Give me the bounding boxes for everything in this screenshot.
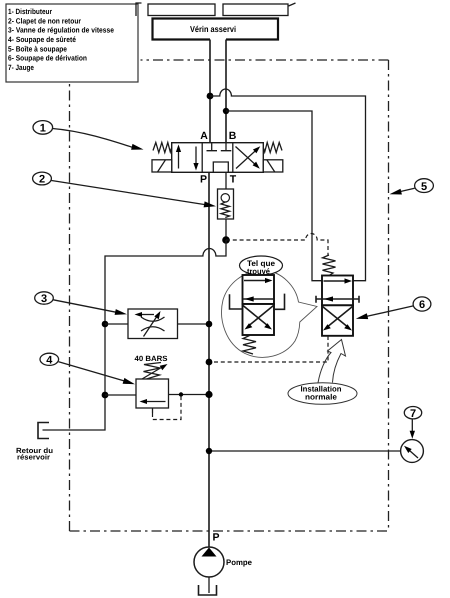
svg-text:4- Soupape de sûreté: 4- Soupape de sûreté [8, 35, 76, 44]
flow regulator valve C3 (vanne de régulation de vitesse) [128, 309, 178, 339]
node left column upper junction [102, 321, 109, 328]
as-found top flow arrow [244, 280, 268, 282]
valve right pilot box [263, 160, 283, 172]
svg-text:3- Vanne de régulation de vite: 3- Vanne de régulation de vitesse [8, 26, 114, 35]
leader 1 [53, 129, 134, 148]
valve cell2 blocked port A [207, 143, 218, 151]
svg-text:1- Distributeur: 1- Distributeur [8, 7, 52, 16]
bypass middle blocked line [316, 296, 359, 303]
svg-text:P: P [200, 174, 207, 186]
leader 5 [401, 188, 415, 191]
bypass top flow arrow [324, 280, 348, 282]
valve left pilot box [152, 160, 172, 172]
svg-text:4: 4 [46, 355, 53, 367]
valve cell3 cross arrows [236, 147, 257, 169]
callout circle 2 [33, 172, 52, 185]
svg-text:normale: normale [305, 392, 338, 401]
bypass valve U6 (soupape de dérivation) [316, 276, 359, 336]
relief valve drain pilot (dashed loop) [152, 408, 154, 413]
svg-text:B: B [229, 130, 237, 142]
servo cylinder (Vérin asservi) [136, 3, 296, 40]
as-found spring below [243, 336, 256, 355]
valve cell2 bottom chamber [213, 162, 228, 172]
callout circle 7 [404, 407, 421, 419]
valve cell2 blocked port B [221, 143, 232, 151]
leader 4 [59, 362, 125, 381]
valve cell1 down arrow [195, 147, 197, 167]
as-found cross arrows [243, 306, 274, 326]
relief valve C4 (soupape de sûreté) [136, 379, 169, 408]
gauge C7 (jauge) [401, 440, 424, 463]
relief valve C4 adjust arrow [140, 367, 164, 381]
callout circle 1 [33, 121, 53, 135]
node relief tap [179, 392, 183, 396]
wire flow regulator to main line [178, 323, 210, 325]
svg-text:Pompe: Pompe [226, 558, 253, 567]
node A-line junction [207, 93, 214, 100]
callout circle 6 [413, 297, 431, 311]
node main line drain junction [206, 359, 213, 366]
svg-text:2- Clapet de non retour: 2- Clapet de non retour [8, 16, 81, 25]
node B-line junction [223, 108, 229, 114]
node main line gauge junction [206, 448, 212, 454]
svg-text:réservoir: réservoir [17, 453, 50, 462]
wire branch to left column (hops over main line) [43, 240, 227, 430]
leader 2 [52, 181, 206, 205]
tank return symbol [38, 423, 49, 439]
as-found middle line [243, 298, 274, 300]
wire relief valve to main line [169, 394, 210, 396]
wire B-tap to bypass valve left [226, 111, 322, 281]
node main line regulator junction [206, 321, 213, 328]
legend box [6, 4, 138, 82]
wire A-tap to bypass valve right (hops over B wire) [210, 89, 366, 281]
arrow installation normale to bypass valve [318, 340, 346, 384]
node left column relief junction [102, 392, 109, 399]
wire left column to relief valve [105, 394, 136, 396]
svg-text:2: 2 [39, 174, 45, 186]
svg-text:1: 1 [40, 123, 46, 135]
wire cylinder right port to valve B [225, 40, 227, 143]
wire cylinder left port to valve A [209, 40, 211, 143]
svg-text:6: 6 [419, 299, 425, 311]
callout circle 5 [415, 179, 434, 193]
node check/branch junction [222, 236, 230, 244]
svg-text:3: 3 [41, 293, 47, 305]
wire valve T to check valve [225, 172, 227, 189]
pump (Pompe) [194, 547, 253, 577]
leader 6 [367, 306, 414, 317]
balloon Installation normale [288, 383, 357, 405]
valve box frame (dash-dot enclosure, item 5) [141, 59, 389, 61]
leader 3 [53, 300, 116, 313]
valve left spring [153, 143, 172, 153]
bypass cross arrows [323, 307, 353, 327]
main pressure wire P line pump to valve [208, 172, 210, 547]
svg-text:5: 5 [421, 181, 427, 193]
svg-text:5- Boîte à soupape: 5- Boîte à soupape [8, 44, 67, 53]
gauge circuit wire [209, 450, 401, 452]
svg-text:A: A [200, 130, 208, 142]
balloon Tel que trouvé (cloud) [222, 271, 317, 358]
as-found valve (inside balloon, spring below) [230, 275, 285, 354]
wire check valve to junction [225, 219, 227, 240]
node main line relief junction [205, 391, 212, 398]
callout circle 4 [40, 353, 59, 365]
as-found right port bracket [274, 294, 285, 310]
leader 7 arrow [411, 420, 413, 434]
valve right spring [263, 143, 282, 153]
relief valve C4 spring [144, 363, 162, 380]
pilot wire (dashed) junction to bypass spring, hops over B wire [226, 233, 328, 255]
svg-text:6- Soupape de dérivation: 6- Soupape de dérivation [8, 54, 87, 63]
pump tank symbol [199, 585, 217, 595]
valve cell1 up arrow [178, 149, 180, 169]
callout circle 3 [35, 292, 54, 304]
directional valve U1 (item 1, 4/3 distributeur) [152, 130, 283, 186]
wire to flow regulator [105, 323, 128, 325]
bypass drain wire (dashed) to main line [209, 336, 328, 362]
svg-text:7: 7 [410, 408, 416, 420]
svg-text:7- Jauge: 7- Jauge [8, 63, 34, 72]
as-found left port bracket [230, 294, 243, 309]
svg-text:T: T [230, 174, 237, 186]
check valve C2 (clapet de non retour) [218, 189, 234, 219]
svg-text:P: P [213, 532, 220, 544]
svg-text:40 BARS: 40 BARS [135, 354, 168, 363]
pump suction wire [208, 577, 210, 593]
svg-text:Vérin asservi: Vérin asservi [190, 24, 236, 34]
bypass valve spring [323, 255, 336, 276]
